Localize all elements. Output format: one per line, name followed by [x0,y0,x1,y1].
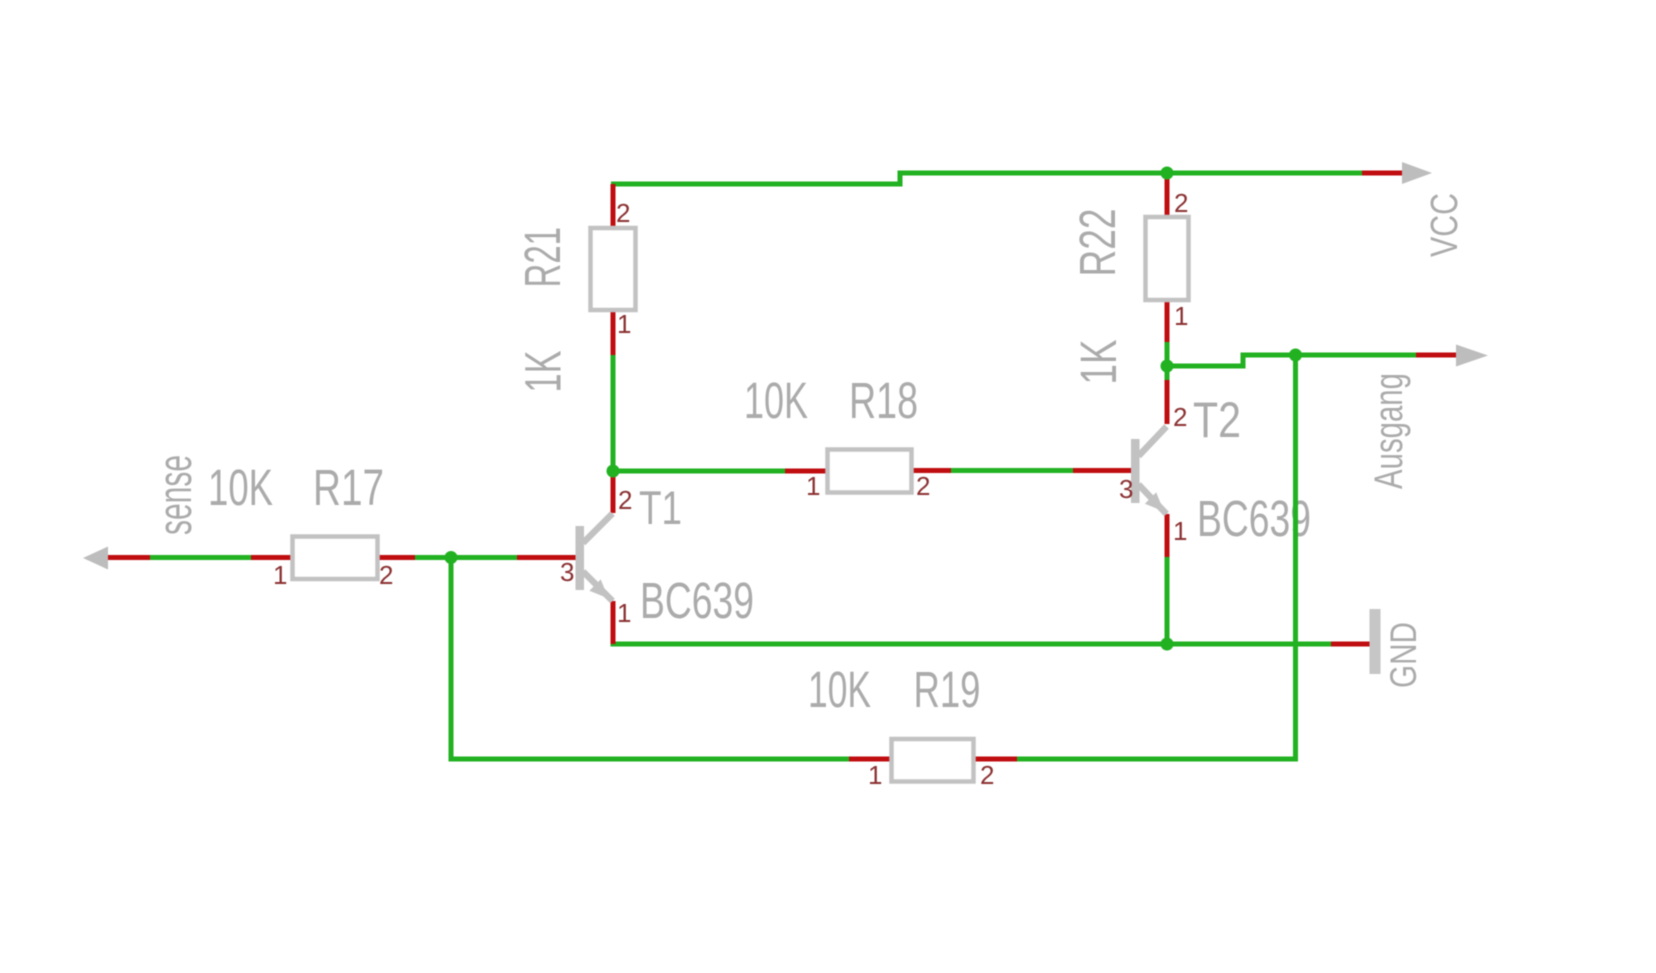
svg-text:1: 1 [868,760,882,790]
transistor T1 [576,514,613,602]
svg-text:10K: 10K [208,459,273,516]
svg-text:R17: R17 [313,459,384,516]
wire R19 pin2 to right vertical [1017,757,1296,762]
wire node A to R18 pin1 [611,469,786,474]
ground GND symbol bar [1370,609,1381,674]
svg-text:2: 2 [916,471,930,501]
transistor T1 collector stub [611,471,616,513]
svg-text:sense: sense [148,455,201,535]
resistor R18 pin 2 stub [913,468,951,473]
junction node B at R17/T1 base [445,551,458,564]
resistor R22 pin 2 stub [1165,173,1170,215]
resistor R21 pin 2 stub [611,184,616,226]
wire R21 bottom to node A [611,355,616,471]
transistor T2 collector stub [1165,380,1170,424]
wire sense to R17 pin1 [150,555,251,560]
svg-text:3: 3 [560,557,574,587]
wire R22 pin1 short green [1165,342,1170,366]
svg-text:R19: R19 [914,661,981,718]
junction node at T2 emitter / GND row [1161,638,1174,651]
resistor R18 body [828,450,912,493]
wire bottom row left to R19 pin1 [449,757,850,762]
svg-text:2: 2 [1174,188,1188,218]
svg-text:2: 2 [379,560,393,590]
net sense arrow [83,547,108,570]
svg-text:1: 1 [806,471,820,501]
junction node A at R21/T1 [607,465,620,478]
resistor R22 pin 1 stub [1165,302,1170,342]
svg-text:1K: 1K [1070,340,1127,385]
svg-text:2: 2 [980,760,994,790]
net VCC arrow [1402,162,1432,184]
net VCC pin stub [1362,171,1406,176]
svg-text:2: 2 [1173,402,1187,432]
svg-text:1: 1 [617,598,631,628]
resistor R19 pin 1 stub [849,757,891,762]
wire node B down left vertical [449,558,454,762]
resistor R21 body [591,228,636,310]
wire VCC rail left segment [611,173,1362,184]
wire R22 node to output arrow [1165,355,1416,366]
net sense pin stub [107,555,150,560]
wire R18 pin2 to T2 base [951,468,1073,473]
wire emitter row to GND [611,642,1332,647]
ground pin stub [1331,642,1371,647]
resistor R19 pin 2 stub [974,757,1017,762]
svg-text:T1: T1 [639,481,682,534]
svg-text:1: 1 [1173,516,1187,546]
svg-text:1K: 1K [515,351,572,393]
svg-text:VCC: VCC [1424,193,1466,257]
resistor R17 body [293,537,378,580]
transistor T2 base stub [1073,468,1131,473]
resistor R18 pin 1 stub [785,469,826,474]
svg-text:1: 1 [617,309,631,339]
svg-text:R22: R22 [1069,209,1126,277]
svg-text:10K: 10K [808,661,871,718]
net Ausgang arrow [1456,345,1488,367]
junction node at output wire [1289,349,1302,362]
svg-text:3: 3 [1119,474,1133,504]
resistor R17 pin 2 stub [377,555,415,560]
svg-text:10K: 10K [744,372,808,429]
resistor R21 pin 1 stub [611,312,616,355]
resistor R19 body [892,739,974,782]
svg-text:Ausgang: Ausgang [1367,373,1411,489]
svg-text:1: 1 [273,560,287,590]
resistor R22 body [1146,217,1189,300]
junction node at R22/T2 collector [1161,360,1174,373]
svg-text:T2: T2 [1193,392,1241,448]
transistor T2 [1131,427,1167,515]
svg-text:BC639: BC639 [640,572,754,629]
junction node at VCC rail / R22 [1161,167,1174,180]
svg-text:2: 2 [618,485,632,515]
wire R22 node down to T2 collector [1165,366,1170,380]
net Ausgang pin stub [1416,353,1459,358]
svg-text:GND: GND [1383,622,1424,688]
transistor T1 emitter stub [611,601,616,644]
wire R17 pin2 to T1 base [415,555,517,560]
svg-text:1: 1 [1174,301,1188,331]
wire T2 emitter down [1165,557,1170,647]
svg-text:R21: R21 [514,227,571,288]
svg-text:R18: R18 [849,372,918,429]
transistor T1 base stub [517,555,576,560]
resistor R17 pin 1 stub [251,555,291,560]
wire right vertical up to output node [1293,355,1298,762]
transistor T2 emitter stub [1165,514,1170,557]
svg-text:2: 2 [616,198,630,228]
